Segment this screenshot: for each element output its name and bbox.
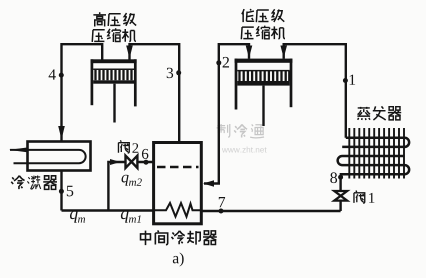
label 7 [219, 197, 225, 207]
wire 3: cooler top to HP suction [130, 44, 180, 142]
node 3 dot [176, 70, 181, 75]
label 4 [49, 69, 56, 79]
label HP compressor 高压级 [93, 12, 136, 26]
arrow left into cooler wall [203, 180, 214, 186]
cooler coil zigzag [155, 203, 200, 217]
wire 1: evaporator to LP suction [284, 44, 346, 138]
arrow down into LP compressor [280, 46, 287, 59]
valve 2 bowtie [126, 156, 138, 168]
wire 4: HP discharge to condenser [62, 44, 103, 140]
piston hatch strokes [240, 71, 290, 81]
node 7 dot [219, 209, 224, 214]
cylinder left wall [91, 59, 94, 105]
LP compressor cylinder [235, 59, 293, 126]
piston rod [262, 86, 264, 126]
node 8 dot [338, 175, 343, 180]
arrow down into LP pipe [246, 46, 253, 59]
piston rod [113, 84, 115, 123]
watermark url [222, 147, 267, 153]
cylinder left wall [235, 59, 238, 110]
node 1 dot [343, 78, 348, 83]
cylinder right wall [290, 59, 293, 108]
node 2 dot [216, 60, 221, 65]
label 8 [330, 172, 337, 183]
label 冷凝器 [11, 176, 57, 190]
arrow down into condenser [58, 126, 65, 140]
cylinder top bar [235, 59, 293, 63]
piston top line [93, 68, 134, 70]
node 6 dot [144, 160, 149, 165]
liquid level dashed line [157, 166, 199, 168]
node 4 dot [59, 73, 64, 78]
arrow down into HP compressor [126, 46, 133, 59]
condenser water tube U-bend [79, 150, 86, 163]
condenser water tube bottom [14, 162, 80, 164]
label LP compressor 压缩机 [241, 26, 285, 40]
wire valve1 verticals [339, 177, 341, 211]
node 5 dot [59, 189, 64, 194]
wire qm2 branch: junction up to valve 2 [108, 162, 125, 210]
condenser water tube top [10, 149, 79, 151]
piston bottom bar [237, 81, 289, 86]
label 阀1 [354, 191, 365, 204]
label 阀2 [118, 140, 129, 153]
label 2 [223, 57, 229, 68]
label a) [173, 252, 184, 266]
piston hatch strokes [96, 70, 132, 81]
label 1 [350, 75, 355, 85]
valve 1 bowtie vertical [334, 191, 347, 201]
label 中间冷却器 [141, 230, 217, 245]
intermediate cooler shell [154, 143, 202, 224]
condenser shell [28, 142, 91, 171]
arrow right into valve 2 [110, 159, 120, 165]
label LP compressor 低压级 [242, 9, 284, 22]
label 蒸发器 [357, 106, 401, 120]
condenser water outlet arrow [9, 148, 27, 153]
wire 5: condenser outlet down [60, 171, 62, 211]
evaporator fins [349, 128, 404, 179]
wire 7: cooler coil out to valve 1 [202, 210, 341, 212]
wire 2: LP discharge to intermediate cooler [204, 44, 249, 183]
cylinder top bar [91, 59, 137, 63]
label qm [70, 211, 78, 223]
wire valve2 to cooler node 6 [137, 161, 154, 163]
label 6 [142, 149, 148, 159]
watermark center 制冷通 [217, 124, 264, 138]
evaporator serpentine coil [338, 138, 410, 177]
HP compressor U-high cylinder [91, 59, 137, 122]
piston top line [237, 70, 289, 72]
label HP compressor 压缩机 [92, 28, 136, 42]
label 3 [167, 68, 173, 78]
label 5 [67, 186, 73, 197]
piston bottom bar [93, 80, 134, 83]
label qm1 [121, 211, 129, 223]
cylinder right wall [134, 59, 137, 106]
wire qm: bottom line from 5 to cooler [62, 209, 154, 211]
label qm2 [122, 175, 129, 186]
